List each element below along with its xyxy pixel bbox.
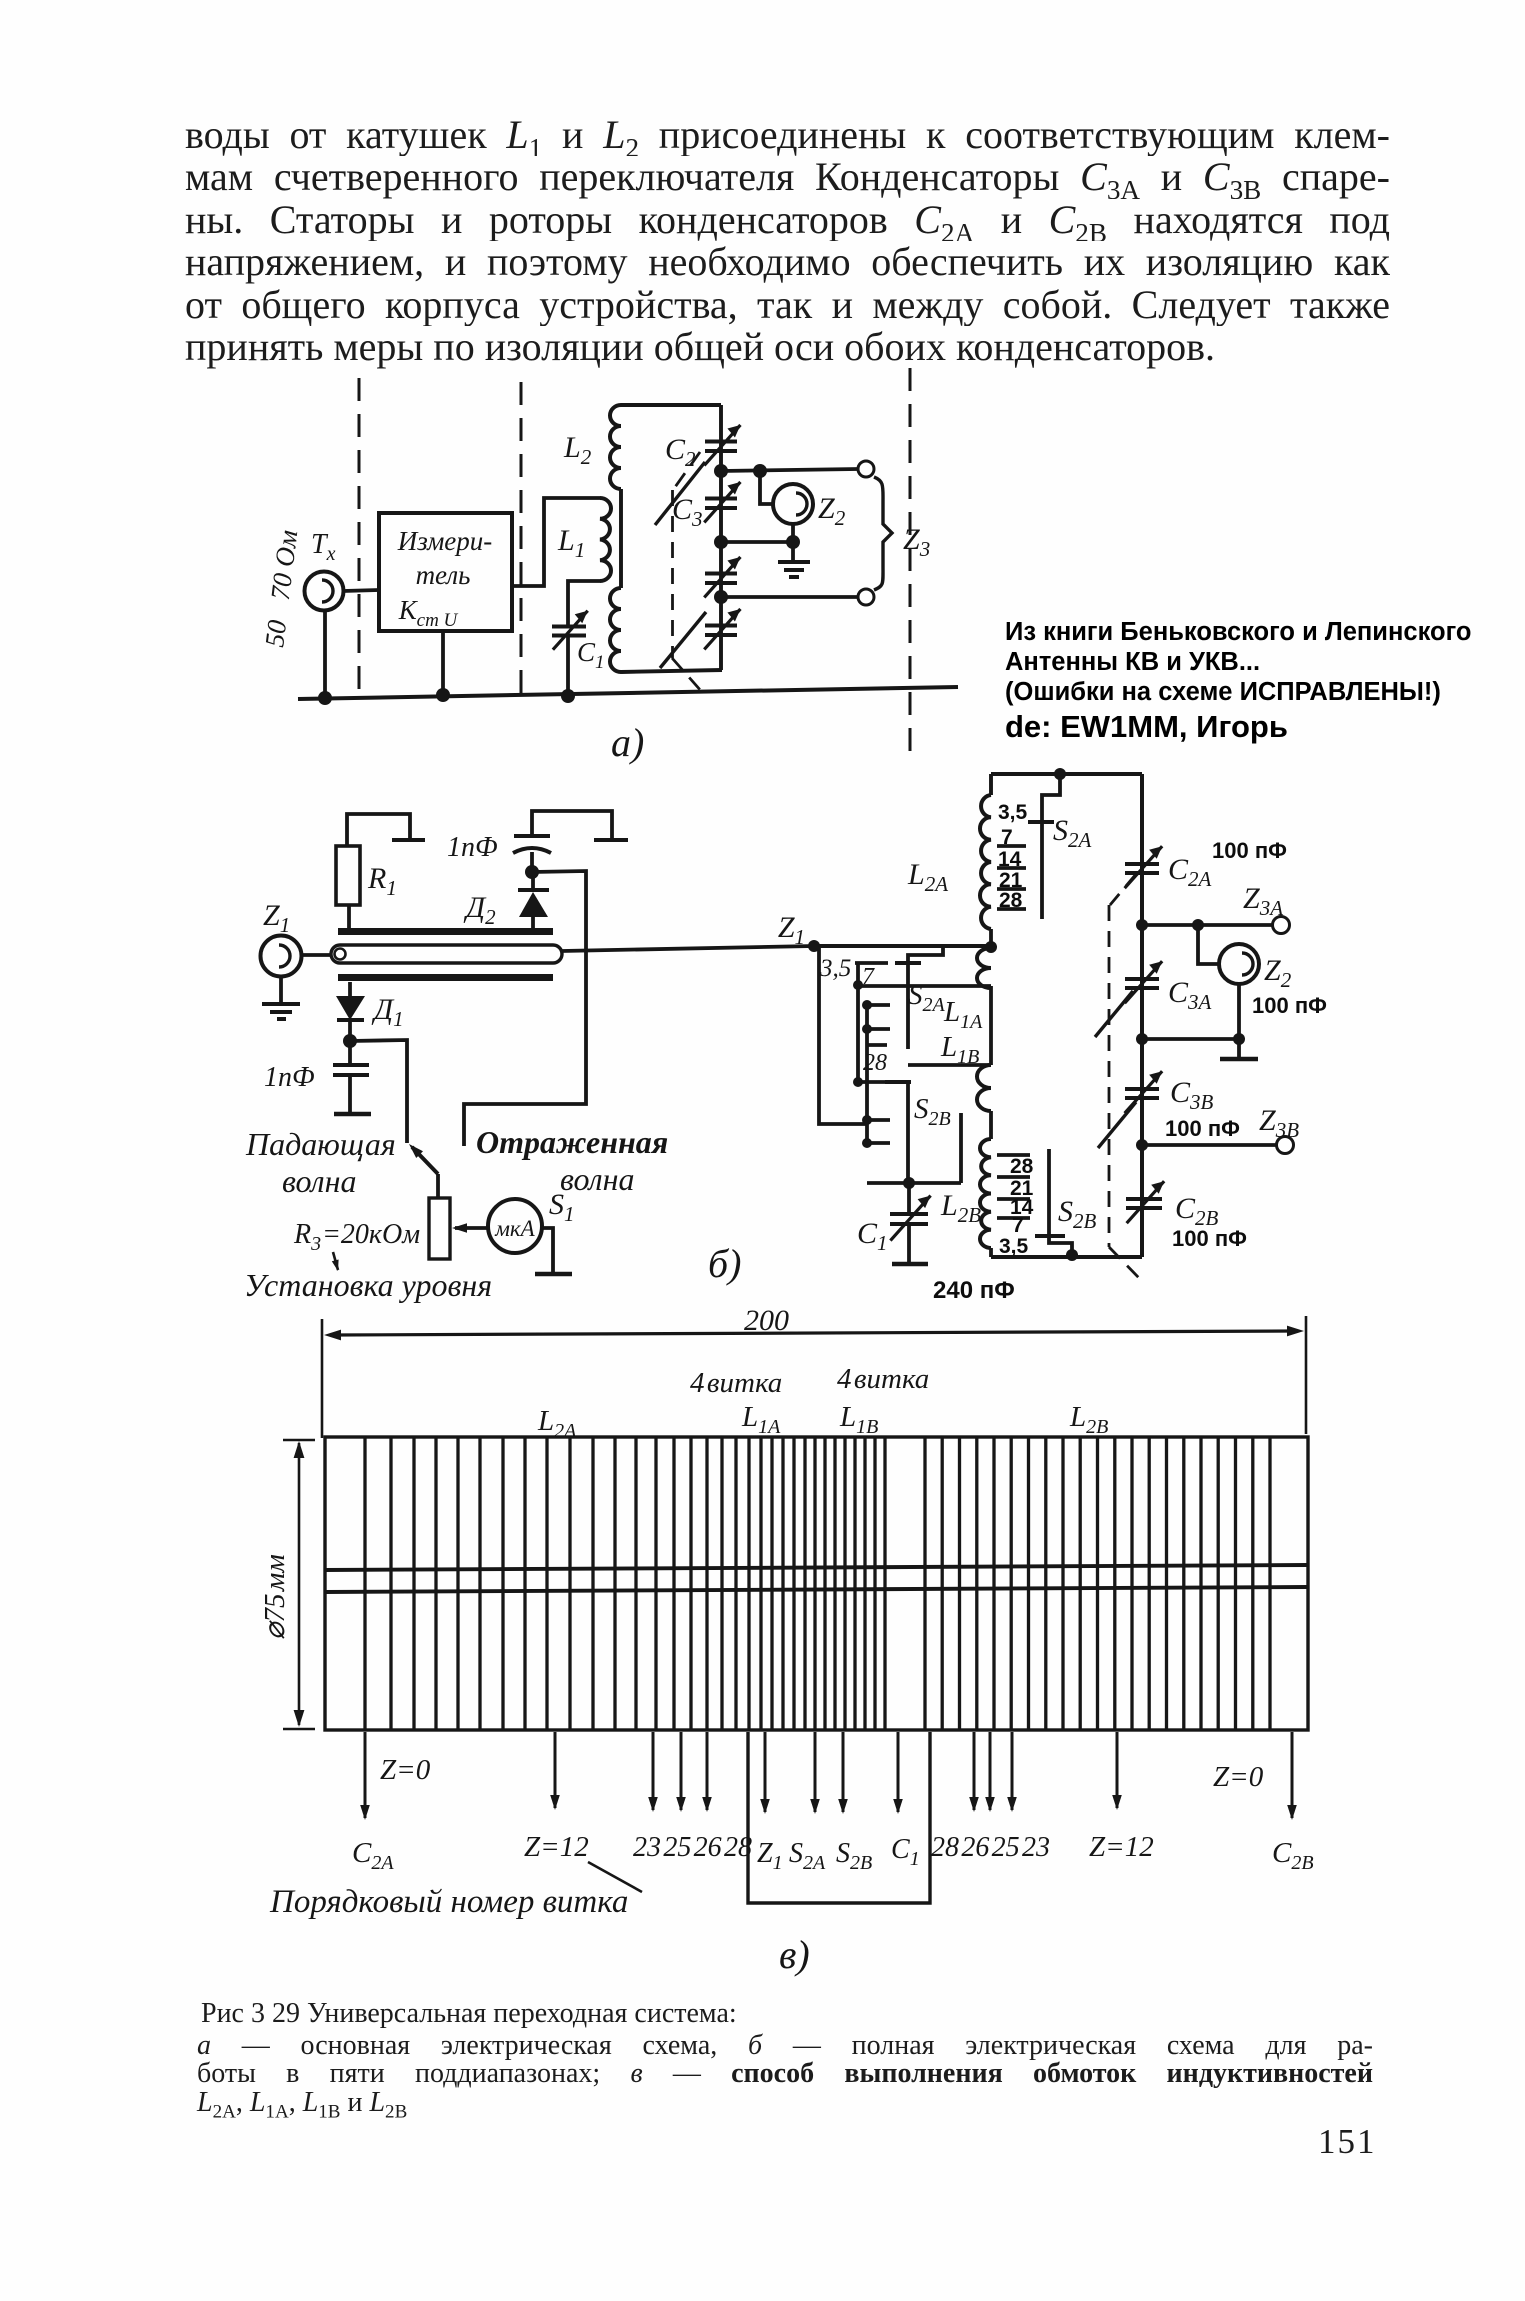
svg-text:C3A: C3A xyxy=(1168,976,1212,1014)
capacitor C3B (variable) xyxy=(1125,1087,1159,1091)
dashed boundary line right (schematic a) xyxy=(909,368,912,758)
wire box to bus xyxy=(441,631,445,696)
svg-text:14: 14 xyxy=(998,848,1022,871)
wire L2 top rail xyxy=(621,403,721,407)
tap ladder line 1 xyxy=(856,963,860,1082)
lead-out arrow Z=12 (left) xyxy=(554,1732,557,1808)
svg-text:Z1: Z1 xyxy=(757,1838,783,1874)
svg-text:Z3: Z3 xyxy=(903,523,930,561)
gang slash marks xyxy=(1095,991,1133,1037)
capacitor C2 second section (variable) xyxy=(705,572,737,576)
inductor L2 xyxy=(610,405,621,489)
dashed gang linkage (б) xyxy=(1110,874,1136,905)
svg-text:Z1: Z1 xyxy=(263,899,290,937)
lead-out arrow S2A xyxy=(814,1732,817,1812)
node and wire to output terminal (top) xyxy=(714,464,728,478)
inductor L1 xyxy=(600,498,611,581)
svg-text:L2A: L2A xyxy=(907,858,948,896)
lead-out arrow S2B xyxy=(842,1732,845,1812)
switch S2B (selector) xyxy=(906,1082,910,1183)
capacitor C3 second section (variable) xyxy=(705,624,737,628)
load Z3 brace xyxy=(874,477,892,590)
dashed gang linkage (schematic a) xyxy=(673,452,700,490)
svg-text:1пФ: 1пФ xyxy=(264,1062,315,1093)
directional coupler main line (tube) xyxy=(331,945,562,963)
svg-text:Кст U: Кст U xyxy=(398,595,459,631)
wire L1B top xyxy=(908,1063,991,1067)
capacitor C1 (variable) xyxy=(566,614,570,626)
terminal Z3B xyxy=(1277,1137,1294,1154)
generator Z1 (left) xyxy=(261,936,302,977)
wire Z2 to ground xyxy=(1237,984,1241,1039)
svg-text:Z=12: Z=12 xyxy=(1089,1831,1154,1863)
svg-text:C1: C1 xyxy=(891,1834,920,1870)
wire Tx to meter box xyxy=(343,590,379,591)
svg-text:28: 28 xyxy=(1010,1155,1034,1178)
svg-text:Z3A: Z3A xyxy=(1243,882,1283,920)
terminal Z3A xyxy=(1273,917,1290,934)
svg-text:4 витка: 4 витка xyxy=(837,1363,929,1395)
svg-text:L1B: L1B xyxy=(940,1031,979,1068)
capacitor C1 (variable, 240пФ) xyxy=(907,1183,911,1213)
lead-out arrows 23 25 26 28 xyxy=(652,1732,655,1810)
wire cap to D2 node xyxy=(530,852,534,872)
wire L2A bottom to Z1 node xyxy=(989,929,993,948)
winding turn lines xyxy=(363,1437,366,1730)
directional coupler lower strip xyxy=(338,974,553,981)
node and wire to output terminal (bottom) xyxy=(714,590,728,604)
inductor L1A xyxy=(977,948,991,988)
wire bottom node row xyxy=(867,1181,961,1185)
svg-text:100 пФ: 100 пФ xyxy=(1165,1116,1240,1141)
pointer line xyxy=(588,1862,642,1892)
svg-text:28: 28 xyxy=(863,1050,887,1076)
wire Z1 down-left branch xyxy=(814,946,867,1124)
svg-text:мкА: мкА xyxy=(494,1216,535,1241)
terminal (bottom, schematic a) xyxy=(858,589,874,605)
svg-text:23 25 26 28: 23 25 26 28 xyxy=(633,1832,752,1863)
inductor L2A xyxy=(989,774,993,795)
directional coupler upper strip xyxy=(338,928,553,935)
svg-text:L1A: L1A xyxy=(943,996,983,1033)
svg-text:4 витка: 4 витка xyxy=(690,1367,782,1399)
svg-text:L1: L1 xyxy=(557,524,585,562)
lead-out arrow C2B xyxy=(1291,1732,1294,1818)
svg-text:1пФ: 1пФ xyxy=(447,832,498,863)
lead-out arrow C2A xyxy=(364,1732,367,1818)
rheostat R3 xyxy=(429,1198,450,1259)
dashed boundary line left (schematic a) xyxy=(358,378,361,700)
dashed boundary line middle (schematic a) xyxy=(520,382,523,700)
dimension 200 (arrow) xyxy=(321,1319,324,1438)
terminal (top, schematic a) xyxy=(858,461,874,477)
wire cap to stub xyxy=(532,811,612,839)
coil former rectangle xyxy=(325,1437,1308,1730)
wire ground bus of schematic a xyxy=(298,687,958,699)
svg-text:S2B: S2B xyxy=(1058,1195,1097,1233)
wire right bus (б) xyxy=(1140,774,1144,1257)
meter box Измеритель Кст U xyxy=(379,513,512,631)
svg-text:C1: C1 xyxy=(857,1217,888,1255)
wire box to L1 xyxy=(512,498,600,586)
node and wire to Z3B xyxy=(1136,1139,1148,1151)
svg-text:R3: R3 xyxy=(293,1219,321,1255)
svg-text:3,5: 3,5 xyxy=(998,801,1028,824)
ground (under Z1) xyxy=(279,976,283,1004)
svg-text:S2A: S2A xyxy=(1053,814,1092,852)
svg-text:Z=0: Z=0 xyxy=(380,1754,431,1786)
wire L1B bottom branch xyxy=(959,1113,963,1183)
lead-out arrow Z=12 (right) xyxy=(1116,1732,1119,1808)
svg-text:Д2: Д2 xyxy=(463,891,496,929)
capacitor C3 (variable) xyxy=(705,497,737,501)
svg-text:волна: волна xyxy=(560,1161,635,1197)
capacitor C2 (variable) xyxy=(705,440,737,444)
svg-text:S2A: S2A xyxy=(789,1838,826,1874)
svg-text:Отраженная: Отраженная xyxy=(476,1124,668,1160)
diode Д1 xyxy=(348,982,352,996)
node and wire to Z3A xyxy=(1136,919,1148,931)
svg-text:⌀75 мм: ⌀75 мм xyxy=(259,1554,291,1640)
svg-text:L1B: L1B xyxy=(839,1401,878,1438)
inductor L1B xyxy=(977,1065,991,1111)
diode Д2 xyxy=(531,872,535,891)
wire Z2 to ground node xyxy=(791,524,795,542)
page number xyxy=(1318,2122,1377,2162)
svg-text:C2B: C2B xyxy=(1175,1192,1219,1230)
svg-text:Z=0: Z=0 xyxy=(1213,1761,1264,1793)
svg-text:б): б) xyxy=(708,1241,741,1286)
wire C1 to bus xyxy=(566,636,570,697)
svg-text:S2B: S2B xyxy=(914,1093,951,1130)
wire L1A bottom to ladder xyxy=(858,984,991,988)
dimension Ø75мм (arrow) xyxy=(298,1443,301,1725)
wire bottom rail (б) xyxy=(991,1255,1142,1259)
wire reflected-wave tap xyxy=(464,871,586,1146)
lead-out arrow Z1 xyxy=(764,1732,767,1812)
wire Z1 node to L2A/L1A xyxy=(814,944,991,948)
svg-text:7: 7 xyxy=(1001,826,1013,849)
svg-text:Z2: Z2 xyxy=(1264,954,1292,992)
load Z2 xyxy=(1198,925,1218,964)
svg-text:7: 7 xyxy=(1012,1214,1024,1237)
wire coupler to node Z1 xyxy=(562,946,814,951)
gang slash marks (schematic a) xyxy=(655,462,705,525)
svg-text:200: 200 xyxy=(744,1304,789,1337)
svg-text:=20кОм: =20кОм xyxy=(322,1219,420,1250)
svg-text:волна: волна xyxy=(282,1163,357,1199)
tap ladder line 2 xyxy=(865,1005,869,1143)
node Z1 (middle) xyxy=(808,940,820,952)
svg-text:Д1: Д1 xyxy=(371,993,404,1031)
wire Д1 node to switch S1 xyxy=(350,1040,407,1143)
svg-text:Порядковый номер витка: Порядковый номер витка xyxy=(269,1884,628,1920)
svg-text:C2A: C2A xyxy=(1168,853,1212,891)
load Z2 (schematic a) xyxy=(760,471,773,504)
svg-text:C1: C1 xyxy=(577,637,605,673)
svg-text:в): в) xyxy=(779,1932,810,1977)
wire Tx to bus xyxy=(323,610,327,699)
svg-text:240 пФ: 240 пФ xyxy=(933,1277,1015,1304)
capacitor C2B (variable) xyxy=(1126,1197,1162,1201)
lead-out arrows 28 26 25 23 xyxy=(973,1732,976,1810)
svg-text:а): а) xyxy=(611,720,644,765)
svg-text:R1: R1 xyxy=(367,862,397,900)
switch S2A (selector) xyxy=(908,948,943,1049)
svg-text:3,5: 3,5 xyxy=(819,955,851,982)
svg-text:28 26 25 23: 28 26 25 23 xyxy=(931,1832,1050,1863)
capacitor C2A (variable) xyxy=(1125,862,1159,866)
trunk between L1A and L1B xyxy=(989,986,993,1065)
svg-text:L1A: L1A xyxy=(741,1401,781,1438)
svg-text:C3B: C3B xyxy=(1170,1076,1214,1114)
arrow meter to rheostat xyxy=(455,1226,488,1230)
wire capacitor bank bus (schematic a) xyxy=(719,405,723,670)
wire Z1 to coupler xyxy=(301,953,332,957)
winding wire horizontal lines xyxy=(325,1565,1308,1570)
svg-text:C2B: C2B xyxy=(1272,1837,1314,1874)
svg-text:28: 28 xyxy=(999,889,1023,912)
meter мкА xyxy=(488,1199,542,1253)
svg-text:Установка уровня: Установка уровня xyxy=(244,1267,492,1303)
L2B taps xyxy=(997,1153,1030,1157)
capacitor C3A (variable) xyxy=(1125,977,1159,981)
wire L2 bottom rail xyxy=(621,670,722,672)
switch S2A (band) xyxy=(1042,774,1060,919)
ground (under Z2) xyxy=(1237,1039,1241,1057)
svg-text:Z2: Z2 xyxy=(818,492,846,530)
svg-text:Z3B: Z3B xyxy=(1259,1104,1299,1142)
generator Tx xyxy=(305,572,344,611)
svg-text:Измери-: Измери- xyxy=(397,526,493,556)
svg-text:L2B: L2B xyxy=(940,1189,981,1227)
wire R1 to stub xyxy=(347,814,410,846)
L2A taps xyxy=(997,844,1026,848)
chassis stub bar (1пФ upper) xyxy=(594,838,628,842)
svg-text:тель: тель xyxy=(416,560,471,590)
svg-text:100 пФ: 100 пФ xyxy=(1252,993,1327,1018)
capacitor 1пФ (lower) xyxy=(348,1041,352,1064)
chassis stub bar (R1) xyxy=(392,838,425,842)
svg-text:Падающая: Падающая xyxy=(245,1126,396,1162)
svg-text:100 пФ: 100 пФ xyxy=(1172,1226,1247,1251)
svg-text:Tx: Tx xyxy=(311,529,336,565)
svg-text:Z=12: Z=12 xyxy=(524,1831,589,1863)
svg-text:Z1: Z1 xyxy=(778,911,805,949)
svg-text:C2A: C2A xyxy=(352,1837,394,1874)
switch S1 blade xyxy=(412,1147,438,1174)
lead-out arrow C1 xyxy=(897,1732,900,1812)
connection bracket under Z1..C1 xyxy=(748,1732,930,1903)
switch S2B (band) xyxy=(1047,1149,1051,1234)
svg-text:50 70 Ом: 50 70 Ом xyxy=(259,528,303,649)
svg-text:3,5: 3,5 xyxy=(999,1235,1029,1258)
svg-text:100 пФ: 100 пФ xyxy=(1212,838,1287,863)
inductor L2B xyxy=(989,1135,993,1139)
svg-text:S2B: S2B xyxy=(836,1838,872,1874)
resistor R1 xyxy=(347,905,351,928)
svg-text:L2: L2 xyxy=(563,431,592,469)
wire L1 to C1 xyxy=(568,581,600,614)
wire meter to ground xyxy=(542,1228,553,1272)
wire top rail (б) xyxy=(991,772,1142,776)
svg-text:L2B: L2B xyxy=(1069,1401,1108,1438)
ground (under Z2, schematic a) xyxy=(791,542,795,562)
